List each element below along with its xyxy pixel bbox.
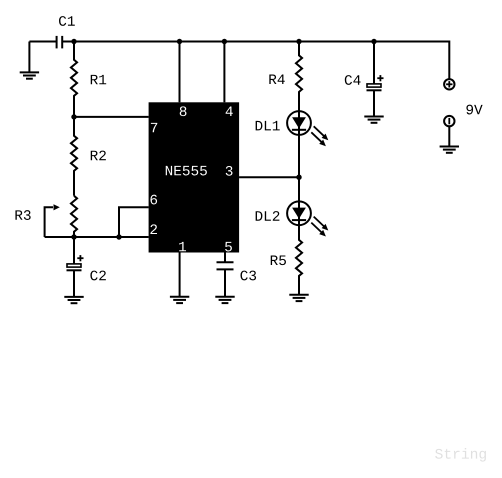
node rail-pin8 junction xyxy=(177,39,182,44)
ground below pin 1 xyxy=(170,297,189,303)
ground below R5 xyxy=(289,295,308,301)
node rail-R4 junction xyxy=(296,39,301,44)
resistor R4 xyxy=(296,42,302,112)
resistor R3 trimmer xyxy=(71,196,77,237)
wire C4 top lead xyxy=(373,42,375,84)
wire C2 top lead xyxy=(73,237,75,264)
capacitor C1 xyxy=(57,36,63,49)
resistor R5 xyxy=(296,225,302,295)
label R5 xyxy=(271,256,286,266)
label R1 xyxy=(91,75,106,84)
resistor R2 xyxy=(71,117,77,196)
arrowhead R3 wiper xyxy=(54,204,60,210)
ground below battery xyxy=(440,147,459,153)
pin label 1 xyxy=(179,242,186,251)
wire pin 1 xyxy=(179,253,181,297)
wire C1 left lead xyxy=(29,41,56,43)
pin label 3 xyxy=(226,166,233,176)
label R4 xyxy=(269,75,284,84)
wire battery to ground xyxy=(448,126,450,146)
wire DL1 to DL2 xyxy=(298,135,300,202)
label C1 xyxy=(59,16,75,26)
battery negative terminal xyxy=(444,116,454,126)
capacitor C2 electrolytic xyxy=(67,255,84,270)
wire C3 bottom lead xyxy=(224,269,226,296)
wire C4 bottom lead xyxy=(373,90,375,116)
wire pin 4 xyxy=(223,42,225,103)
node pin3-LED junction xyxy=(296,175,301,180)
label 9V xyxy=(466,105,482,115)
pin label 2 xyxy=(150,224,157,234)
wire R3 wiper arm xyxy=(45,207,53,237)
node rail-C4 junction xyxy=(371,39,376,44)
pin label 7 xyxy=(151,123,157,132)
pin label 5 xyxy=(225,242,232,252)
label C3 xyxy=(240,271,256,281)
node R1-R2 pin7 junction xyxy=(71,114,76,119)
ground below C4 xyxy=(364,117,383,123)
battery positive terminal xyxy=(444,79,454,89)
wire pin 3 xyxy=(239,176,299,178)
label R3 xyxy=(15,210,30,220)
node rail-pin4 junction xyxy=(222,39,227,44)
wire pin 7 xyxy=(74,116,149,118)
LED DL1 xyxy=(287,111,328,146)
label NE555 xyxy=(166,166,207,176)
LED DL2 xyxy=(287,201,328,236)
capacitor C4 electrolytic xyxy=(367,75,384,90)
ground after C1 xyxy=(20,72,39,78)
watermark String xyxy=(435,448,486,462)
capacitor C3 xyxy=(217,262,234,269)
node rail-R1 junction xyxy=(71,39,76,44)
wire C1 to ground xyxy=(28,42,30,73)
label R2 xyxy=(91,151,106,161)
ground below C2 xyxy=(64,297,83,303)
label DL1 xyxy=(256,121,280,130)
wire pin 5 upper lead xyxy=(224,253,226,263)
label C4 xyxy=(345,75,361,85)
IC U1 NE555 body xyxy=(149,102,240,252)
node pin6-pin2 junction xyxy=(116,234,121,239)
wire C2 bottom lead xyxy=(73,270,75,297)
resistor R1 xyxy=(71,42,77,117)
pin label 4 xyxy=(226,107,233,116)
ground below C3 xyxy=(215,297,234,303)
wire pin 6 xyxy=(119,207,149,237)
node R3-C2 junction xyxy=(71,234,76,239)
label DL2 xyxy=(256,211,280,221)
wire pin 8 xyxy=(179,42,181,103)
label C2 xyxy=(90,271,105,281)
wire top power rail xyxy=(62,42,449,80)
pin label 8 xyxy=(180,106,187,116)
wire pin 2 bottom rail xyxy=(45,236,149,238)
pin label 6 xyxy=(150,195,157,205)
